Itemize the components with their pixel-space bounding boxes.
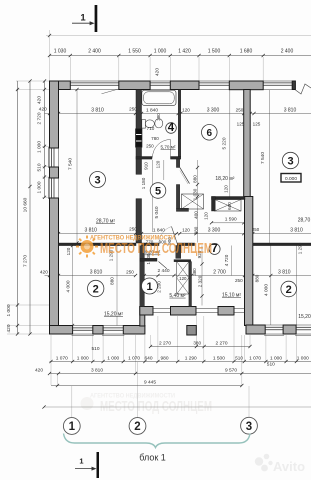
ticks bottom row2 [49,360,52,363]
svg-text:15,10 м²: 15,10 м² [222,293,241,299]
svg-text:1 290: 1 290 [185,355,197,361]
svg-text:910: 910 [143,162,148,170]
svg-text:120: 120 [182,107,190,112]
interior wall 3-4 upper [136,90,142,130]
svg-text:28,70 м²: 28,70 м² [96,218,115,224]
interior wall 4-6 [178,90,181,157]
svg-text:2: 2 [93,284,99,296]
svg-text:420: 420 [40,270,48,276]
svg-text:3 300: 3 300 [207,107,220,113]
svg-text:380: 380 [192,268,197,276]
svg-text:3: 3 [94,175,100,187]
interior vert dim line right 1290 [296,246,298,326]
left wall upper [50,81,59,148]
bottom faint watermark sun [81,397,94,410]
room 7 circle [209,243,220,255]
left wall window 2 [51,178,53,198]
svg-text:420: 420 [155,68,161,76]
svg-text:125: 125 [237,122,245,127]
porch side wall [140,307,145,327]
toilet [142,120,146,129]
unit wall upper stem [244,90,251,198]
bottom row4 9445 [51,385,242,387]
ROOM-CIRCLES [88,122,299,297]
svg-text:120: 120 [66,247,71,255]
porch band corner piece [140,307,153,316]
bathtub [142,90,176,105]
svg-text:510: 510 [267,361,275,367]
DIM-LINES [16,34,311,409]
svg-text:1 290: 1 290 [298,242,303,254]
svg-text:Avito: Avito [273,459,305,474]
left dim line 10660 [17,81,19,334]
washbasin [155,119,163,128]
svg-text:1 030: 1 030 [193,188,198,200]
hall door leaf [159,262,168,269]
porch door threshold mid [196,308,218,310]
svg-text:3 810: 3 810 [91,107,104,113]
svg-text:880: 880 [193,175,198,183]
interior wall 3-5 lower [136,199,142,243]
top section mark bar [95,5,98,32]
svg-text:7 540: 7 540 [260,152,266,164]
left wall lower [50,198,59,326]
svg-text:1 500: 1 500 [208,48,221,54]
room3 bottom wall hall piece 770 [142,243,160,246]
svg-text:1: 1 [79,457,83,466]
svg-text:250: 250 [129,106,137,111]
svg-text:2 270: 2 270 [159,341,171,347]
interior vert dim line room2-1290 [116,246,118,326]
ticks bottom row3 [48,372,51,375]
stair top wall piece B [174,260,191,262]
left window sills [47,147,49,168]
door room6 leaf [180,168,190,184]
interior vert dim line corridor [151,160,153,232]
svg-text:7: 7 [211,243,217,255]
interior mini row 1590 [212,222,244,224]
room3 bottom wall right of door [177,243,194,246]
interior dim row room2 top left [45,275,136,277]
unit wall lower [245,197,253,326]
axis circle 1 [63,418,80,435]
BOTTOM-AXIS [63,417,257,462]
svg-text:250: 250 [235,278,243,283]
svg-text:120: 120 [224,185,229,193]
svg-text:1 070: 1 070 [249,355,261,361]
EXTENSION-LINES [7,30,296,418]
top dim line [50,55,312,57]
bottom right window 2 [296,326,311,328]
svg-text:9 445: 9 445 [144,379,156,385]
axis circle 2 [129,418,146,435]
svg-text:1 000: 1 000 [270,355,282,361]
interior vert dim line right room2 [270,246,272,326]
svg-text:3: 3 [246,421,252,433]
svg-text:2 400: 2 400 [88,48,101,54]
svg-text:2: 2 [134,421,140,433]
axis line [44,406,311,408]
svg-text:250: 250 [236,107,244,112]
svg-text:510: 510 [36,163,42,171]
porch band pier mid-right [218,307,234,316]
interior vert dim line room7 4720 [231,246,233,276]
svg-text:1: 1 [146,281,152,293]
WATERMARKS [76,234,305,474]
svg-text:блок 1: блок 1 [139,453,166,463]
WINDOWS [48,81,311,335]
window opening diagonal [102,89,119,94]
svg-text:1 840: 1 840 [153,227,165,233]
room4 bottom wall right piece [171,157,181,160]
room 4 circle [166,122,177,134]
svg-text:780: 780 [151,136,159,141]
svg-text:600: 600 [227,202,232,210]
svg-text:3 300: 3 300 [208,227,221,233]
left extension lines [16,80,50,82]
stair right wall [189,262,192,307]
svg-text:1 000: 1 000 [77,355,89,361]
svg-text:250: 250 [126,270,134,275]
svg-text:380: 380 [156,113,161,121]
axis leader lines [71,386,73,418]
room 3 right circle [282,152,298,168]
svg-text:7 540: 7 540 [68,158,74,170]
left wall window 1 [51,148,53,167]
svg-text:10 660: 10 660 [23,197,29,212]
svg-text:1 000: 1 000 [6,304,12,316]
svg-text:3: 3 [287,156,293,168]
window sill inner lines [70,89,119,91]
interior vert dim line room6 5220 [229,90,231,197]
svg-text:1 070: 1 070 [128,355,140,361]
svg-text:4: 4 [168,122,175,134]
svg-text:120: 120 [156,160,161,168]
svg-text:4 000: 4 000 [263,284,269,296]
svg-text:510: 510 [91,346,99,352]
svg-text:420: 420 [6,324,12,332]
wall 5-6 lower [176,185,179,209]
interior dim row room7 [144,275,244,277]
FIXTURES [142,90,176,128]
svg-text:420: 420 [36,96,42,104]
hall L-wall horizontal [212,197,246,200]
svg-text:2 400: 2 400 [281,48,294,54]
bottom extension lines [50,335,52,385]
top wall outer face lines [70,80,119,82]
svg-text:0.000: 0.000 [285,176,297,182]
svg-text:1: 1 [69,421,76,433]
svg-text:МЕСТО ПОД СОЛНЦЕМ: МЕСТО ПОД СОЛНЦЕМ [100,240,212,257]
ticks bottom row1 [149,345,152,348]
vent shaft black [136,129,142,147]
bottom wall window 2 [103,327,123,329]
svg-text:1 840: 1 840 [146,107,158,113]
bottom wall right pier [283,325,296,334]
interior vert dim line room3 7540 [76,90,78,244]
SECTION-MARKS [72,5,99,478]
ticks top row [48,54,265,57]
svg-text:5 220: 5 220 [221,137,227,149]
svg-text:2: 2 [286,284,292,296]
svg-text:250: 250 [146,144,154,149]
svg-text:3 810: 3 810 [90,270,103,276]
top extension lines [49,30,51,81]
svg-text:510: 510 [235,355,243,360]
svg-text:980: 980 [160,355,168,361]
svg-text:1 000: 1 000 [36,181,42,193]
interior vert dim line room6 door [197,160,199,243]
porch column [187,326,197,336]
interior vert dim line room7 left [201,246,203,306]
interior dim row mid [59,233,312,235]
interior vert dim line room2 [72,246,74,326]
svg-text:5,40 м²: 5,40 м² [169,293,186,299]
svg-text:3 810: 3 810 [91,367,103,373]
svg-text:250: 250 [129,227,137,232]
bottom section mark bar [97,452,100,478]
level mark 0.000 [281,174,301,183]
bottom wall corner [50,326,73,335]
svg-text:2 270: 2 270 [215,341,227,347]
porch door threshold left [153,308,171,310]
top section mark arrow [72,22,93,24]
break line top right [296,84,312,94]
svg-text:120: 120 [204,212,209,220]
svg-text:880: 880 [110,277,115,285]
svg-text:1 500: 1 500 [213,355,225,361]
svg-text:1 420: 1 420 [178,48,191,54]
svg-text:710: 710 [147,126,155,131]
svg-text:1 000: 1 000 [107,355,119,361]
svg-text:1 070: 1 070 [56,355,68,361]
svg-text:1: 1 [80,13,86,24]
svg-text:2 320: 2 320 [197,275,202,287]
hall L-wall vertical [212,197,216,212]
bottom row2 [50,361,312,363]
interior dim row below top wall [45,113,312,115]
wall 5-6 upper [176,159,179,167]
svg-text:380: 380 [193,341,201,346]
svg-text:2 700: 2 700 [213,270,226,276]
ticks left col [43,79,46,82]
svg-text:1 550: 1 550 [128,48,141,54]
top wall pier B [119,81,150,90]
stair top wall piece A [140,258,157,261]
bottom window sills [72,334,94,336]
svg-text:3 810: 3 810 [284,107,297,113]
WALLS [50,81,312,335]
svg-text:7 270: 7 270 [23,255,29,267]
interior dim row room2 right [253,275,311,277]
svg-text:5: 5 [155,185,161,197]
avito watermark [255,454,305,474]
svg-text:640: 640 [144,355,152,361]
svg-text:МЕСТО ПОД СОЛНЦЕМ: МЕСТО ПОД СОЛНЦЕМ [100,398,212,415]
room 1 circle [142,278,158,294]
ticks interior rows [48,112,51,115]
ticks bottom row4 [56,384,59,387]
svg-text:120: 120 [179,276,187,281]
svg-text:18,20 м²: 18,20 м² [215,176,234,182]
svg-text:880: 880 [194,226,199,234]
room2-hall wall [140,246,145,307]
svg-text:3 810: 3 810 [278,270,291,276]
closet X box 1 [182,194,204,209]
left dim line inner [44,81,46,197]
svg-text:15,20: 15,20 [298,314,311,320]
bottom row3 [50,373,312,375]
top wall pier corner [50,81,71,90]
teal brace [64,434,251,448]
wall foot into hall [176,208,188,211]
top wall window jamb right [292,81,295,90]
bottom right window 1 [265,326,283,328]
svg-text:28,70: 28,70 [298,218,311,224]
svg-text:3 810: 3 810 [290,227,303,233]
svg-text:1 000: 1 000 [297,355,309,361]
svg-text:6: 6 [207,128,213,139]
interior wall 3-5 [136,147,142,174]
svg-text:120: 120 [182,227,190,232]
svg-text:1 030: 1 030 [54,48,67,54]
svg-text:250: 250 [252,227,260,232]
bottom wall window 1 [73,327,93,329]
bottom row1 porch [151,346,251,348]
door room3 from hall leaf [172,227,178,244]
svg-text:3 810: 3 810 [84,227,97,233]
room 3 left circle [90,172,106,188]
top wall pier D unit-flange [229,81,263,90]
room 5 circle [150,183,166,199]
axis circle 3 [241,417,258,434]
room 2 left circle [88,280,104,296]
room 6 circle [202,125,218,141]
svg-text:1 180: 1 180 [141,177,146,189]
porch band pier mid-left [171,307,197,316]
svg-text:1 000: 1 000 [36,141,42,153]
porch door threshold right [234,308,245,310]
shaft X-braced [177,262,189,294]
svg-text:5 040: 5 040 [154,206,160,218]
svg-text:400: 400 [193,211,198,219]
unit wall bottom foot [246,325,265,334]
svg-text:5,70 м²: 5,70 м² [161,145,176,150]
svg-text:4 000: 4 000 [66,280,72,292]
bottom wall pier 510 [93,326,103,335]
window glazing top wall [70,82,119,84]
svg-text:2 720: 2 720 [36,112,42,124]
room4 bottom wall left piece [136,157,152,160]
svg-text:4 720: 4 720 [224,254,229,266]
top wall pier C [170,81,199,90]
svg-text:420: 420 [35,367,43,373]
left dim line 7270 [29,81,31,334]
svg-text:2 440: 2 440 [157,268,169,274]
svg-text:125: 125 [253,122,261,127]
svg-text:880: 880 [255,274,260,282]
closet X box 2 [215,200,242,212]
svg-text:15,20 м²: 15,20 м² [104,311,123,317]
svg-text:1 680: 1 680 [240,48,253,54]
bottom section mark arrow [75,468,95,470]
room3 bottom wall left [59,243,137,246]
svg-text:1 590: 1 590 [225,217,237,223]
center watermark sun logo [76,236,98,258]
left wall pier 510 [50,167,59,178]
door arc room4 [153,140,171,158]
svg-text:420: 420 [39,107,47,113]
svg-text:9 570: 9 570 [225,367,237,373]
page fold gray line [46,35,311,37]
right unit room3 bottom wall [253,243,311,246]
room 2 right circle [281,281,297,297]
bottom wall pier 1070 [123,326,145,335]
svg-text:1 000: 1 000 [154,48,167,54]
